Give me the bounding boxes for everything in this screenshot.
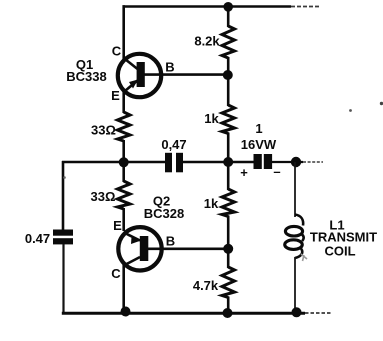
svg-text:+: +	[240, 165, 248, 180]
svg-text:1k: 1k	[204, 196, 219, 211]
node junction top rail / divider rail	[223, 2, 233, 12]
node junction coil rail / bottom rail	[292, 307, 302, 317]
wire from resistor to mid rail	[122, 140, 125, 163]
wire resistor to Q2 emitter	[122, 208, 125, 231]
wire coil rail upper segment	[294, 162, 296, 217]
svg-text:16VW: 16VW	[241, 137, 277, 152]
svg-text:–: –	[273, 164, 280, 179]
wire top supply rail dashed tail	[291, 6, 319, 8]
wire mid rail between cap and electrolytic	[182, 161, 254, 164]
wire divider rail bottom segment	[227, 297, 230, 315]
resistor 4.7k	[222, 267, 235, 298]
wire top supply rail	[123, 5, 292, 8]
node speck right mid	[349, 109, 352, 112]
node junction Q1 base wire / divider rail	[223, 70, 233, 80]
wire left rail top segment (top rail down to Q1 collector)	[122, 5, 125, 60]
svg-text:BC338: BC338	[66, 69, 106, 84]
wire divider rail top segment	[227, 5, 230, 27]
svg-text:TRANSMIT: TRANSMIT	[310, 230, 377, 245]
node junction Q2 base wire / divider rail	[223, 244, 233, 254]
svg-text:COIL: COIL	[324, 244, 355, 259]
node junction mid rail / divider rail	[223, 157, 233, 167]
svg-text:B: B	[166, 234, 175, 249]
wire divider rail between 1k and mid rail	[227, 133, 230, 164]
wire coil rail lower segment	[294, 257, 296, 313]
svg-text:1k: 1k	[204, 111, 219, 126]
svg-text:C: C	[112, 44, 122, 59]
transistor Q2 BC328	[118, 227, 161, 270]
svg-text:0,47: 0,47	[161, 137, 186, 152]
svg-text:0.47: 0.47	[25, 231, 50, 246]
svg-text:B: B	[165, 60, 174, 75]
node speck right edge	[380, 102, 383, 105]
svg-text:E: E	[113, 218, 122, 233]
node junction left rail / bottom rail	[121, 307, 131, 317]
resistor 330 ohm upper (R emitter Q1)	[118, 112, 131, 141]
wire bottom rail dashed tail	[305, 312, 331, 314]
wire Q1 base to divider junction	[144, 73, 228, 76]
capacitor 1uF 16VW electrolytic	[254, 154, 273, 169]
wire middle rail left of coupling cap	[62, 161, 166, 164]
wire left branch vertical upper (mid rail down to 0.47 cap)	[62, 161, 65, 230]
svg-text:BC328: BC328	[144, 206, 184, 221]
wire divider rail between 1k and 4.7k	[227, 216, 230, 269]
wire mid rail dashed tail	[303, 161, 323, 163]
node junction divider rail / bottom rail	[223, 308, 233, 318]
capacitor 0.47 left branch	[53, 230, 73, 245]
svg-text:8.2k: 8.2k	[194, 34, 220, 49]
resistor 1k upper	[222, 105, 235, 134]
capacitor 0.47 coupling (series in mid rail)	[165, 153, 183, 173]
wire left branch vertical lower (cap down to bottom rail)	[62, 244, 64, 314]
wire bottom rail	[62, 312, 305, 315]
transistor Q1 BC338	[118, 54, 161, 97]
resistor 1k lower	[222, 189, 235, 217]
inductor L1 transmit coil	[285, 215, 307, 262]
node junction left rail / mid rail	[119, 157, 129, 167]
node junction mid rail / coil rail	[291, 157, 301, 167]
wire mid rail right of electrolytic	[272, 161, 303, 163]
svg-text:E: E	[111, 88, 120, 103]
wire Q2 collector down to bottom rail	[122, 264, 125, 313]
node speck near left junction	[63, 176, 66, 179]
resistor 8.2k	[222, 26, 235, 58]
wire Q1 emitter down to resistor	[122, 90, 125, 113]
wire divider rail between mid rail and lower 1k	[227, 162, 230, 190]
svg-text:C: C	[111, 266, 121, 281]
svg-text:1: 1	[255, 121, 262, 136]
svg-text:4.7k: 4.7k	[193, 278, 219, 293]
svg-text:33Ω: 33Ω	[91, 189, 116, 204]
resistor 330 ohm lower (R emitter Q2)	[118, 181, 131, 209]
wire Q2 base to divider junction	[147, 248, 228, 251]
wire mid rail to lower 330 resistor	[122, 162, 125, 182]
svg-text:33Ω: 33Ω	[91, 123, 116, 138]
wire divider rail between 8.2k and 1k	[227, 57, 230, 106]
